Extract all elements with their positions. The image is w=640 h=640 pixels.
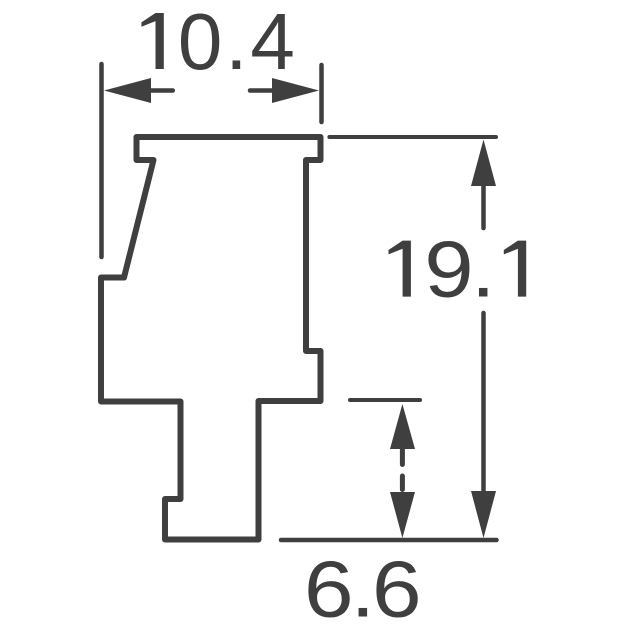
dimension 10.4 left arrow [104,78,173,103]
dimension 19.1 up arrow [471,140,496,229]
small dimension dash [400,476,405,490]
dimension 10.4 left extension line [99,64,104,257]
svg-text:0.4: 0.4 [178,0,295,86]
small dimension extension line [350,398,420,402]
dimension 19.1 down arrow [471,491,496,538]
svg-text:9.: 9. [424,224,493,314]
dimension 19.1 top extension line [329,135,496,139]
part outline [101,137,321,540]
svg-text:6.6: 6.6 [304,544,418,633]
small dimension up arrow [390,404,415,465]
dimension text 6.6 [304,544,418,633]
dimension 19.1 line lower segment [481,313,486,492]
dimension 10.4 right extension line [319,65,324,122]
dimension 10.4 right arrow [250,78,319,103]
dimension text 10.4 [141,0,295,86]
bottom extension line [281,538,497,543]
dimension text 19.1 [389,224,527,314]
small dimension down arrow [390,492,415,538]
